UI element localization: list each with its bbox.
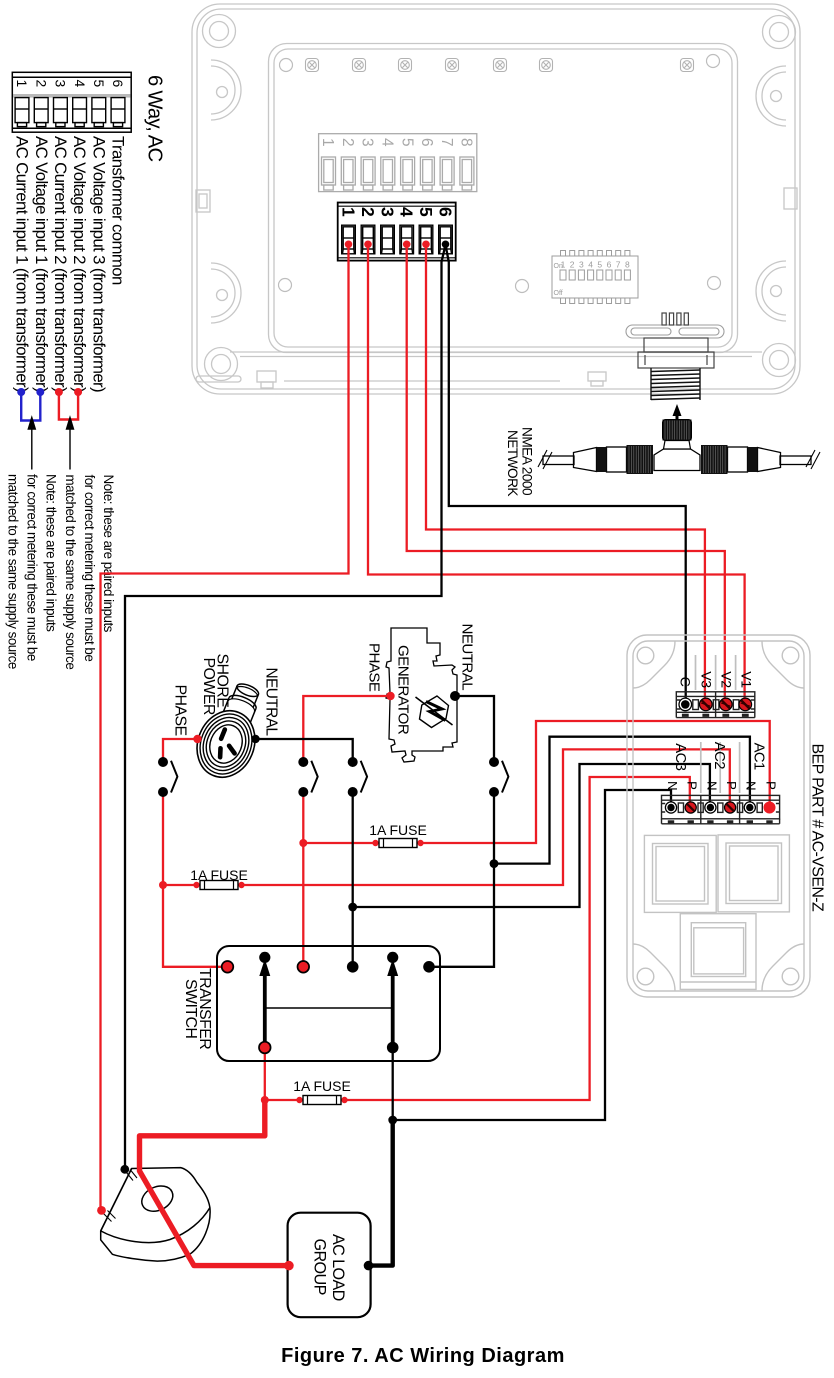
generator phase wiring (red) (303, 696, 769, 967)
junction: shore neutral to AC2 N (348, 903, 357, 912)
junction: shore phase to fuse (159, 881, 167, 889)
junction: generator neutral to AC1 N (490, 859, 499, 868)
svg-text:AC3: AC3 (672, 743, 688, 770)
junction: load neutral to AC3 N (388, 1116, 397, 1125)
svg-text:Note: these are paired inputs: Note: these are paired inputs (43, 474, 58, 632)
svg-text:Note: these are paired inputs: Note: these are paired inputs (101, 475, 116, 633)
main device enclosure (gray line art) (192, 4, 800, 394)
shore neutral wiring (black) (256, 739, 710, 967)
paired input stubs: red pair (59, 393, 78, 420)
node: generator phase terminal (386, 692, 394, 700)
svg-text:2: 2 (358, 207, 378, 217)
arrow up to device connector (673, 404, 682, 429)
fuse (load phase) 1A (296, 1097, 302, 1103)
svg-text:for correct metering these mus: for correct metering these must be (82, 475, 97, 662)
svg-text:AC Voltage input 1 (from trans: AC Voltage input 1 (from transformer) (32, 136, 51, 392)
svg-text:4: 4 (588, 260, 593, 270)
current transformer toroid (101, 1168, 210, 1262)
NMEA2000 receptacle on device (626, 325, 724, 338)
svg-text:N: N (744, 781, 759, 790)
transfer switch terminals (222, 961, 234, 973)
BEP sensor box enclosure (627, 635, 810, 997)
svg-text:5: 5 (416, 207, 436, 217)
svg-text:1: 1 (561, 260, 566, 270)
switch SW1 (shore phase) (171, 761, 177, 793)
svg-text:V1: V1 (737, 671, 753, 688)
svg-text:N: N (704, 781, 719, 790)
transfer-switch neutral output to AC3 N + load (black) (393, 790, 671, 1120)
svg-text:V2: V2 (718, 671, 734, 688)
svg-text:matched to the same supply sou: matched to the same supply source (5, 474, 20, 669)
svg-text:for correct metering these mus: for correct metering these must be (24, 474, 39, 661)
svg-text:8: 8 (625, 260, 630, 270)
svg-text:BEP PART # AC-VSEN-Z: BEP PART # AC-VSEN-Z (809, 744, 826, 913)
pcb screw heads row (306, 59, 694, 72)
svg-text:6: 6 (110, 80, 126, 88)
svg-text:NMEA 2000: NMEA 2000 (520, 427, 535, 496)
svg-text:P: P (685, 781, 700, 790)
svg-text:3: 3 (359, 138, 376, 146)
svg-text:Transformer common: Transformer common (109, 136, 128, 285)
thick red feed through CT to load (140, 1100, 289, 1266)
svg-text:GENERATOR: GENERATOR (394, 645, 411, 735)
paired input stubs: blue pair (21, 393, 40, 421)
fuse (shore phase) 1A (193, 882, 199, 888)
svg-text:6: 6 (607, 260, 612, 270)
svg-text:5: 5 (91, 80, 107, 88)
right knurl (701, 445, 728, 474)
threads (651, 368, 700, 400)
svg-text:AC LOAD: AC LOAD (329, 1234, 347, 1301)
svg-text:V3: V3 (698, 671, 714, 688)
svg-text:4: 4 (397, 207, 417, 217)
transfer switch box (217, 946, 440, 1061)
mounting ears (211, 60, 786, 323)
svg-text:SWITCH: SWITCH (182, 979, 199, 1038)
svg-text:2: 2 (570, 260, 575, 270)
node: shore power neutral terminal (251, 735, 259, 743)
tie bar and arrows (265, 1007, 393, 1009)
svg-text:P: P (724, 781, 739, 790)
svg-text:Figure 7. AC Wiring Diagram: Figure 7. AC Wiring Diagram (281, 1345, 565, 1367)
svg-text:1A FUSE: 1A FUSE (190, 867, 248, 883)
6-way terminal block (black) on device (338, 203, 456, 261)
small panel circles (279, 55, 721, 293)
svg-text:PHASE: PHASE (172, 685, 189, 736)
generator icon (386, 628, 459, 762)
switch SW4 (generator neutral) (502, 761, 508, 793)
8-way terminal block (gray) (319, 134, 477, 192)
sensor voltage terminal block (676, 692, 755, 718)
svg-text:NEUTRAL: NEUTRAL (263, 668, 280, 737)
CT secondary pins (104, 1170, 138, 1222)
generator neutral wiring (black) (435, 696, 750, 967)
svg-text:7: 7 (616, 260, 621, 270)
svg-text:4: 4 (72, 80, 88, 88)
svg-text:3: 3 (53, 80, 69, 88)
note arrows (28, 418, 73, 470)
fuse (generator phase) 1A (372, 840, 378, 846)
svg-text:N: N (665, 781, 680, 790)
transfer-switch fused output to AC3 P (red) (265, 777, 690, 1100)
shore phase wiring (red) (163, 739, 730, 967)
node: generator neutral terminal (450, 691, 460, 701)
AC load group box (288, 1213, 371, 1318)
T body (654, 449, 700, 471)
sensor AC terminal block (662, 795, 780, 823)
generator hexagon + bolt (416, 696, 453, 728)
NMEA 2000 T-connector (538, 447, 820, 472)
svg-text:1: 1 (338, 207, 358, 217)
svg-text:AC1: AC1 (751, 743, 767, 770)
switch SW2 (generator phase) (311, 761, 317, 793)
svg-text:matched to the same supply sou: matched to the same supply source (63, 475, 78, 670)
svg-text:3: 3 (579, 260, 584, 270)
svg-text:1A FUSE: 1A FUSE (369, 822, 427, 838)
svg-text:2: 2 (339, 138, 356, 146)
svg-text:1: 1 (319, 138, 336, 146)
black wires from terminal 6 (125, 245, 686, 1166)
svg-text:1A FUSE: 1A FUSE (293, 1078, 351, 1094)
corner screws (203, 15, 796, 381)
svg-text:6 Way, AC: 6 Way, AC (144, 75, 166, 161)
left knurl (627, 445, 654, 474)
svg-text:4: 4 (379, 138, 396, 147)
DIP switch block (552, 251, 638, 304)
svg-text:6: 6 (418, 138, 435, 146)
T top neck (664, 441, 691, 450)
device terminal dots (345, 241, 353, 249)
svg-text:2: 2 (33, 80, 49, 87)
svg-text:5: 5 (398, 138, 415, 146)
svg-text:P: P (763, 781, 778, 790)
svg-text:C: C (677, 677, 693, 687)
svg-text:AC Voltage input 2 (from trans: AC Voltage input 2 (from transformer) (70, 136, 89, 392)
svg-text:3: 3 (377, 207, 397, 217)
svg-text:NETWORK: NETWORK (505, 430, 520, 496)
node: shore power phase terminal (193, 735, 201, 743)
svg-text:POWER: POWER (200, 658, 217, 715)
legend 6-way block (12, 72, 131, 132)
svg-text:7: 7 (438, 138, 455, 146)
svg-text:8: 8 (458, 138, 475, 146)
svg-text:Off: Off (554, 290, 563, 297)
side and bottom tabs (196, 188, 797, 388)
svg-text:AC2: AC2 (711, 742, 727, 769)
switch SW3 (shore neutral) (361, 761, 367, 793)
svg-text:NEUTRAL: NEUTRAL (459, 624, 476, 691)
svg-text:AC Voltage input 3 (from trans: AC Voltage input 3 (from transformer) (89, 136, 108, 392)
T top knurled stub (663, 420, 692, 441)
svg-text:PHASE: PHASE (366, 643, 383, 692)
svg-text:6: 6 (435, 207, 455, 217)
svg-text:5: 5 (597, 260, 602, 270)
shore power connector icon (187, 675, 275, 786)
svg-text:1: 1 (14, 80, 30, 88)
svg-text:GROUP: GROUP (310, 1239, 328, 1295)
svg-text:AC Current input 2 (from trans: AC Current input 2 (from transformer) (51, 136, 70, 392)
svg-text:AC Current input 1 (from trans: AC Current input 1 (from transformer) (13, 136, 32, 392)
red wires from device terminals (101, 245, 745, 1207)
junction: load phase to fuse (261, 1096, 269, 1104)
junction: generator phase to fuse (299, 839, 307, 847)
